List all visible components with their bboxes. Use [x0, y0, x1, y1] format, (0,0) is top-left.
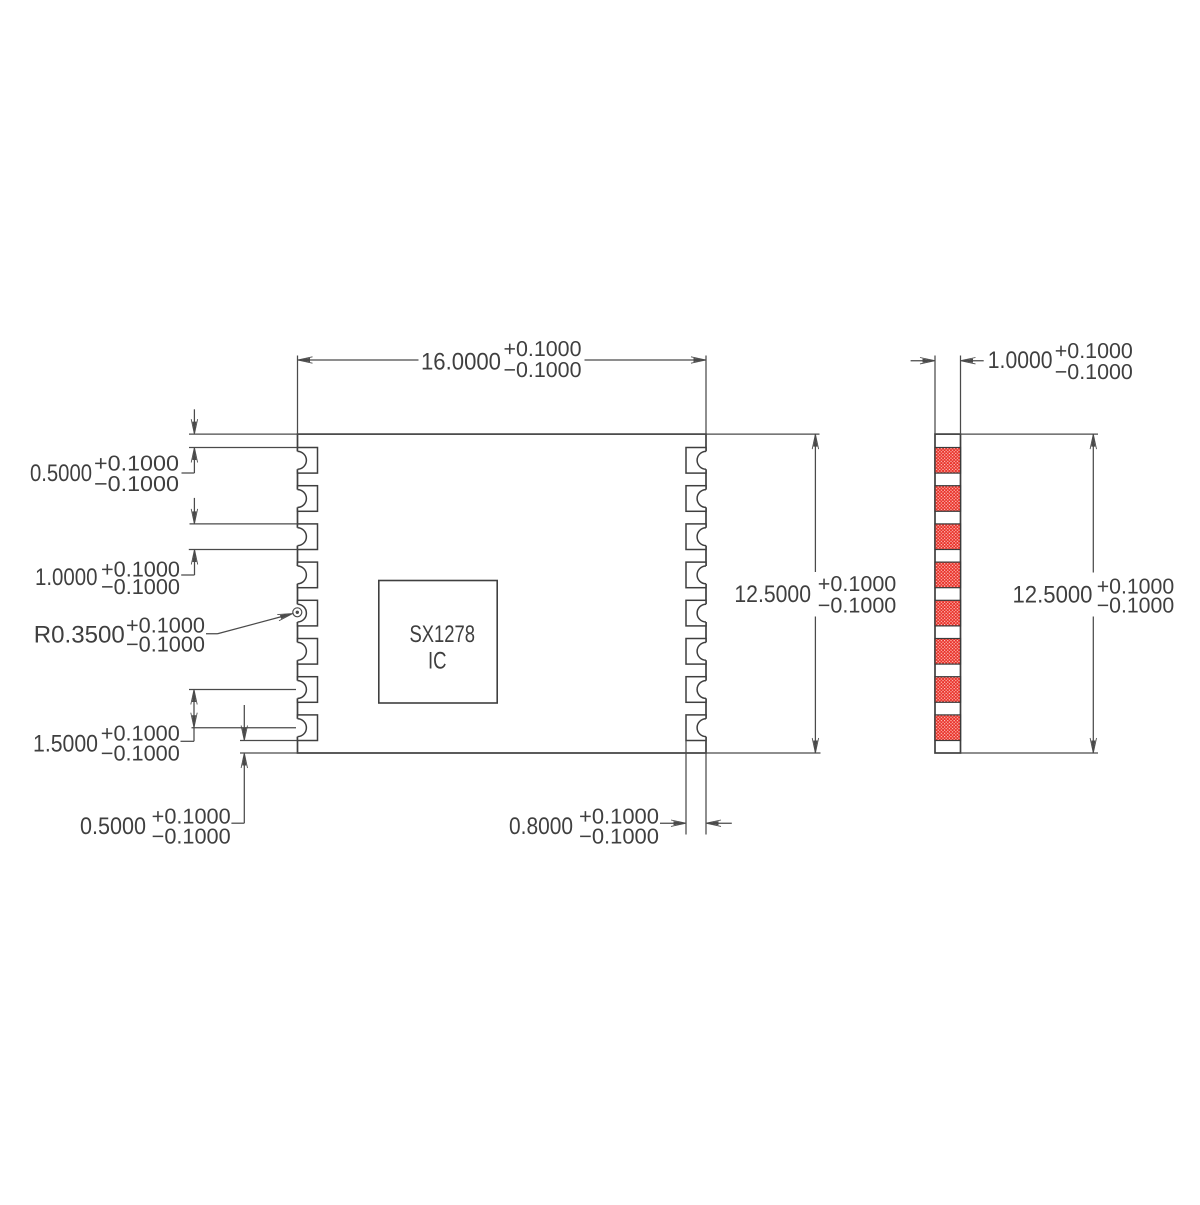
dimension 1.0000 pad height: extension line at pad3 top — [190, 523, 298, 525]
svg-text:IC: IC — [428, 648, 447, 675]
castellated pad 7 left (front view) — [296, 677, 318, 703]
IC box SX1278 — [379, 581, 497, 704]
svg-text:1.5000: 1.5000 — [33, 730, 98, 757]
dimension 0.5000 bottom: down arrow above pad8 bottom — [241, 705, 247, 741]
castellated pad 4 left (front view) — [296, 562, 318, 588]
castellated pad 4 right (front view) — [686, 562, 708, 588]
side view bottom edge extension line to right — [961, 752, 1099, 754]
svg-text:1.0000: 1.0000 — [35, 564, 98, 591]
dimension 12.5000 height (front view): dimension line — [812, 434, 818, 753]
svg-text:0.8000: 0.8000 — [509, 813, 573, 840]
svg-text:−0.1000: −0.1000 — [152, 825, 231, 849]
dimension 0.8000 pad width: left extension line — [685, 741, 687, 835]
svg-text:0.5000: 0.5000 — [80, 813, 146, 840]
dimension 16.0000 width: left extension line — [297, 356, 299, 435]
side view body outline (thin strip) — [935, 434, 961, 753]
dimension text 1.0000 (left) — [35, 564, 98, 591]
svg-text:−0.1000: −0.1000 — [126, 632, 205, 656]
red castellation pad 2 (side view) — [935, 486, 961, 512]
tolerance text +0.1000/-0.1000 for left 1.0000 — [101, 557, 180, 599]
dimension 1.0000 thickness: left extension line above strip — [934, 356, 936, 435]
svg-text:−0.1000: −0.1000 — [818, 593, 897, 617]
castellated pad 7 right (front view) — [686, 677, 708, 703]
red castellation pad 5 (side view) — [935, 600, 961, 626]
svg-text:−0.1000: −0.1000 — [101, 742, 180, 766]
tolerance text +0.1000/-0.1000 for top 0.5000 — [94, 452, 179, 497]
dimension text 12.5000 (front view) — [734, 581, 811, 608]
castellated pad 1 right (front view) — [686, 448, 708, 474]
dimension text 0.8000 — [509, 813, 573, 840]
leader line with arrowhead for R0.3500 — [206, 614, 293, 634]
castellated pad 2 right (front view) — [686, 486, 708, 512]
castellated pad 3 right (front view) — [686, 524, 708, 550]
dimension 1.0000 pad height: extension line at pad3 bottom — [189, 549, 298, 551]
red castellation pad 8 (side view) — [935, 715, 961, 741]
dimension text 0.5000 (top left) — [30, 460, 92, 487]
dimension 0.5000 bottom: up arrow below module bottom with leader hook — [231, 753, 247, 823]
dimension text 1.5000 — [33, 730, 98, 757]
tolerance text +0.1000/-0.1000 for front 12.5000 — [818, 572, 897, 617]
dimension 1.5000 pitch: extension line at pad7 center — [189, 689, 296, 691]
tolerance text +0.1000/-0.1000 for 0.8000 — [579, 805, 659, 849]
dimension 1.0000: up arrow below pad3 bottom with leader hook — [181, 550, 198, 576]
castellated pad 5 left (front view) — [296, 600, 318, 626]
dimension 0.8000 pad width: right extension line — [705, 741, 707, 835]
dimension 1.5000: double-headed arrow with leader hook — [181, 690, 198, 742]
dimension 0.8000: inward arrows — [660, 820, 732, 826]
tolerance text +0.1000/-0.1000 for R0.3500 — [126, 614, 205, 657]
side view top edge extension line to right — [961, 433, 1099, 435]
svg-text:−0.1000: −0.1000 — [1097, 594, 1175, 618]
dimension text 1.0000 (side thickness) — [988, 347, 1053, 374]
dimension 0.5000 top: up arrow below pad1 top with leader hook — [182, 448, 198, 474]
dimension 0.5000 bottom margin: extension line at pad8 bottom — [240, 740, 298, 742]
tolerance text +0.1000/-0.1000 for bottom 0.5000 — [152, 805, 231, 849]
red castellation pad 6 (side view) — [935, 639, 961, 665]
dimension 0.5000 top margin: extension line at pad1 top — [189, 447, 298, 449]
tolerance text +0.1000/-0.1000 for 1.5000 — [101, 721, 180, 765]
dimension 12.5000 height (side view): dimension line — [1090, 434, 1096, 753]
castellated pad 6 left (front view) — [296, 639, 318, 665]
castellated pad 3 left (front view) — [296, 524, 318, 550]
dimension text 12.5000 (side view) — [1013, 582, 1093, 609]
red castellation pad 3 (side view) — [935, 524, 961, 550]
castellated pad 8 right (front view) — [686, 715, 708, 741]
module body outline (front view) — [298, 434, 707, 753]
tolerance text +0.1000/-0.1000 for 16.0000 — [504, 337, 582, 382]
module top edge extension line — [189, 433, 820, 435]
dimension text 0.5000 (bottom left) — [80, 813, 146, 840]
svg-text:1.0000: 1.0000 — [988, 347, 1053, 374]
castellated pad 1 left (front view) — [296, 448, 318, 474]
svg-text:SX1278: SX1278 — [410, 621, 476, 648]
dimension 0.5000 top: down arrow above module top edge — [191, 409, 197, 434]
dimension 1.5000 pitch: extension line at pad8 center — [192, 727, 297, 729]
svg-text:−0.1000: −0.1000 — [504, 358, 582, 382]
svg-text:−0.1000: −0.1000 — [1055, 360, 1133, 384]
red castellation pad 1 (side view) — [935, 448, 961, 474]
svg-text:−0.1000: −0.1000 — [101, 575, 180, 599]
dimension 1.0000 thickness: inward arrows — [911, 358, 984, 364]
svg-text:0.5000: 0.5000 — [30, 460, 92, 487]
dimension 16.0000 width: dimension line with outward arrowheads — [298, 357, 707, 363]
tolerance text +0.1000/-0.1000 for side 1.0000 — [1055, 339, 1133, 384]
svg-text:R0.3500: R0.3500 — [34, 622, 125, 649]
svg-text:16.0000: 16.0000 — [421, 349, 501, 376]
dimension 1.0000 thickness: right extension line above strip — [960, 356, 962, 435]
castellated pad 5 right (front view) — [686, 600, 708, 626]
svg-text:12.5000: 12.5000 — [1013, 582, 1093, 609]
module bottom edge extension line — [240, 752, 821, 754]
svg-text:−0.1000: −0.1000 — [579, 825, 659, 849]
castellated pad 2 left (front view) — [296, 486, 318, 512]
svg-text:12.5000: 12.5000 — [734, 581, 811, 608]
tolerance text +0.1000/-0.1000 for side 12.5000 — [1097, 574, 1175, 617]
red castellation pad 7 (side view) — [935, 677, 961, 703]
dimension text 16.0000 — [421, 349, 501, 376]
castellated pad 8 left (front view) — [296, 715, 318, 741]
svg-text:−0.1000: −0.1000 — [94, 472, 179, 496]
dimension 1.0000: down arrow above pad3 top — [191, 498, 197, 524]
red castellation pad 4 (side view) — [935, 562, 961, 588]
dimension text R0.3500 — [34, 622, 125, 649]
castellated pad 6 right (front view) — [686, 639, 708, 665]
radius marker circle with center dot at pad5 castellation — [293, 608, 302, 617]
dimension 16.0000 width: right extension line — [705, 356, 707, 435]
